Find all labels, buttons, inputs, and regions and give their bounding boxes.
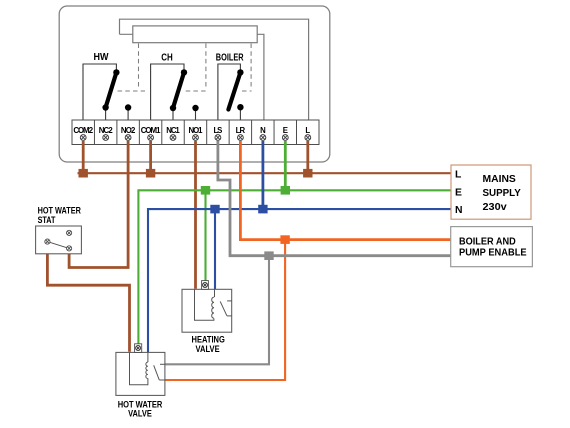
- dashed linkage HW: [118, 44, 145, 92]
- svg-text:E: E: [283, 126, 288, 135]
- switch CH NO1 dot: [192, 105, 198, 111]
- wire E green drop: [284, 141, 287, 190]
- wire NO2 brown to stat: [69, 141, 128, 268]
- switch HW contact stub NC2: [105, 108, 107, 120]
- switch HW bracket: [83, 64, 116, 120]
- svg-text:NO2: NO2: [121, 126, 136, 135]
- switch BOILER lever (open): [228, 72, 240, 109]
- switch CH NC1 dot: [170, 105, 176, 111]
- switch CH contact stub NC1: [172, 108, 174, 120]
- stat terminal left: [45, 239, 50, 244]
- svg-text:LR: LR: [236, 126, 246, 135]
- hot water stat box: [36, 226, 82, 254]
- svg-text:MAINS: MAINS: [483, 174, 516, 185]
- svg-text:NO1: NO1: [189, 126, 204, 135]
- programmer outer box: [59, 6, 330, 162]
- svg-text:NC1: NC1: [166, 126, 180, 135]
- green drop to heating valve: [204, 190, 206, 280]
- programmer front panel: [133, 26, 257, 43]
- junction green heating valve: [201, 186, 210, 195]
- grey drop to hot water valve switch: [165, 259, 269, 364]
- junction COM1: [146, 169, 155, 178]
- green earth bus: [138, 190, 451, 343]
- orange drop to hot water valve switch: [165, 243, 285, 380]
- wire NO1 brown to heating valve: [194, 141, 197, 289]
- wire N blue drop: [261, 141, 264, 209]
- svg-text:CH: CH: [161, 53, 173, 64]
- wire L brown drop: [306, 141, 309, 170]
- svg-text:LS: LS: [214, 126, 223, 135]
- dashed linkage CH: [186, 44, 206, 92]
- svg-text:BOILER AND: BOILER AND: [459, 237, 516, 248]
- wire LS grey to boiler enable: [218, 141, 451, 256]
- svg-text:VALVE: VALVE: [128, 407, 152, 418]
- hot water valve internal wiring: [130, 352, 148, 384]
- svg-text:N: N: [455, 205, 463, 216]
- switch BOILER pivot dot: [237, 69, 243, 75]
- svg-text:COM1: COM1: [141, 126, 161, 135]
- switch BOILER contact stub LR: [239, 108, 241, 120]
- svg-text:BOILER: BOILER: [216, 53, 244, 64]
- junction blue heating valve: [210, 205, 219, 214]
- switch HW NO2 dot: [125, 104, 131, 110]
- switch CH pivot dot: [181, 69, 187, 75]
- svg-text:VALVE: VALVE: [196, 343, 220, 354]
- junction COM2: [79, 169, 88, 178]
- hot water valve coil: [146, 362, 148, 378]
- terminal strip: [72, 120, 319, 145]
- switch CH lever: [173, 72, 184, 108]
- junction orange: [280, 235, 289, 244]
- switch CH bracket: [151, 64, 184, 120]
- programmer backplate outline: [120, 19, 309, 120]
- terminal labels: [73, 126, 310, 135]
- boiler and pump enable box: [451, 227, 533, 267]
- hot water valve earth terminal: [135, 344, 142, 353]
- svg-text:COM2: COM2: [73, 126, 93, 135]
- svg-text:N: N: [260, 126, 266, 135]
- switch BOILER bracket: [218, 64, 241, 120]
- switch HW contact stub NO2: [127, 108, 129, 120]
- heating valve aux switch: [220, 301, 227, 315]
- junction blue N: [258, 205, 267, 214]
- svg-text:L: L: [455, 170, 462, 181]
- wire COM2 brown drop: [82, 141, 85, 170]
- svg-text:SUPPLY: SUPPLY: [483, 188, 521, 199]
- brown live bus to mains: [78, 172, 452, 174]
- hot water valve box: [116, 352, 165, 395]
- junction green E: [281, 186, 290, 195]
- svg-text:STAT: STAT: [38, 214, 56, 225]
- wire stat output brown to hot water valve: [47, 244, 129, 352]
- svg-text:230v: 230v: [483, 202, 507, 213]
- svg-text:E: E: [455, 188, 462, 199]
- blue drop to heating valve: [214, 209, 216, 289]
- switch BOILER LR dot: [237, 104, 243, 110]
- svg-text:L: L: [305, 126, 310, 135]
- svg-text:PUMP ENABLE: PUMP ENABLE: [459, 248, 527, 259]
- stat terminal top right: [67, 230, 72, 235]
- programmer backplate lower edge: [120, 34, 264, 120]
- stat switch blade: [47, 242, 69, 249]
- junction L: [303, 169, 312, 178]
- switch HW pivot dot: [113, 69, 119, 75]
- stat terminal bottom: [67, 246, 72, 251]
- hot water valve aux switch: [154, 365, 160, 380]
- junction grey: [264, 251, 273, 260]
- switch CH contact stub NO1: [195, 108, 197, 120]
- blue neutral bus: [148, 209, 451, 352]
- heating valve earth terminal: [202, 281, 209, 290]
- svg-text:NC2: NC2: [99, 126, 114, 135]
- switch HW lever: [106, 72, 117, 107]
- wire LR orange to boiler enable: [240, 141, 451, 240]
- heating valve internal wiring: [195, 289, 214, 320]
- switch HW NC2 dot: [102, 104, 108, 110]
- terminal screws: [80, 135, 310, 141]
- heating valve coil: [212, 297, 214, 318]
- mains supply box: [451, 165, 531, 219]
- dashed linkage BOILER: [242, 44, 252, 92]
- svg-text:HW: HW: [94, 52, 110, 63]
- heating valve box: [182, 289, 232, 332]
- wire COM1 brown drop: [149, 141, 152, 170]
